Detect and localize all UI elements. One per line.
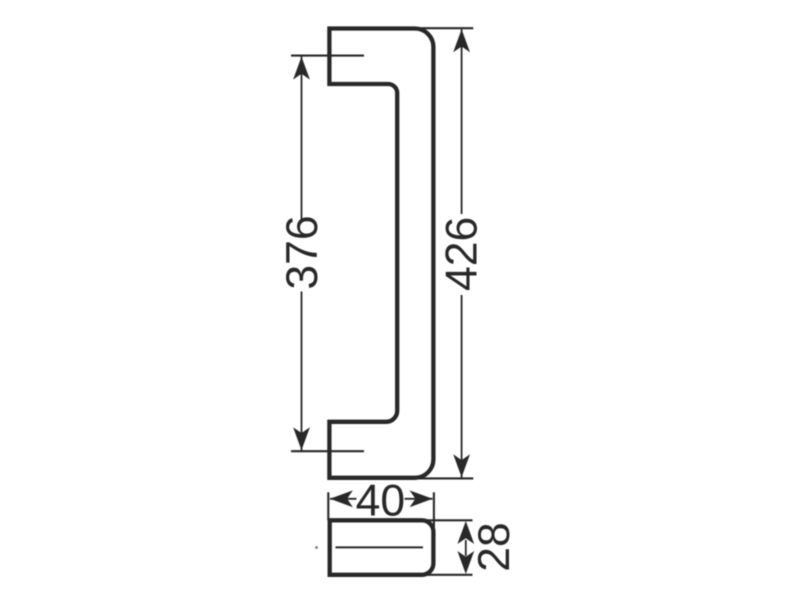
svg-text:376: 376 [278, 215, 327, 289]
svg-text:426: 426 [438, 217, 487, 291]
svg-text:28: 28 [470, 522, 519, 572]
svg-text:40: 40 [356, 476, 406, 525]
